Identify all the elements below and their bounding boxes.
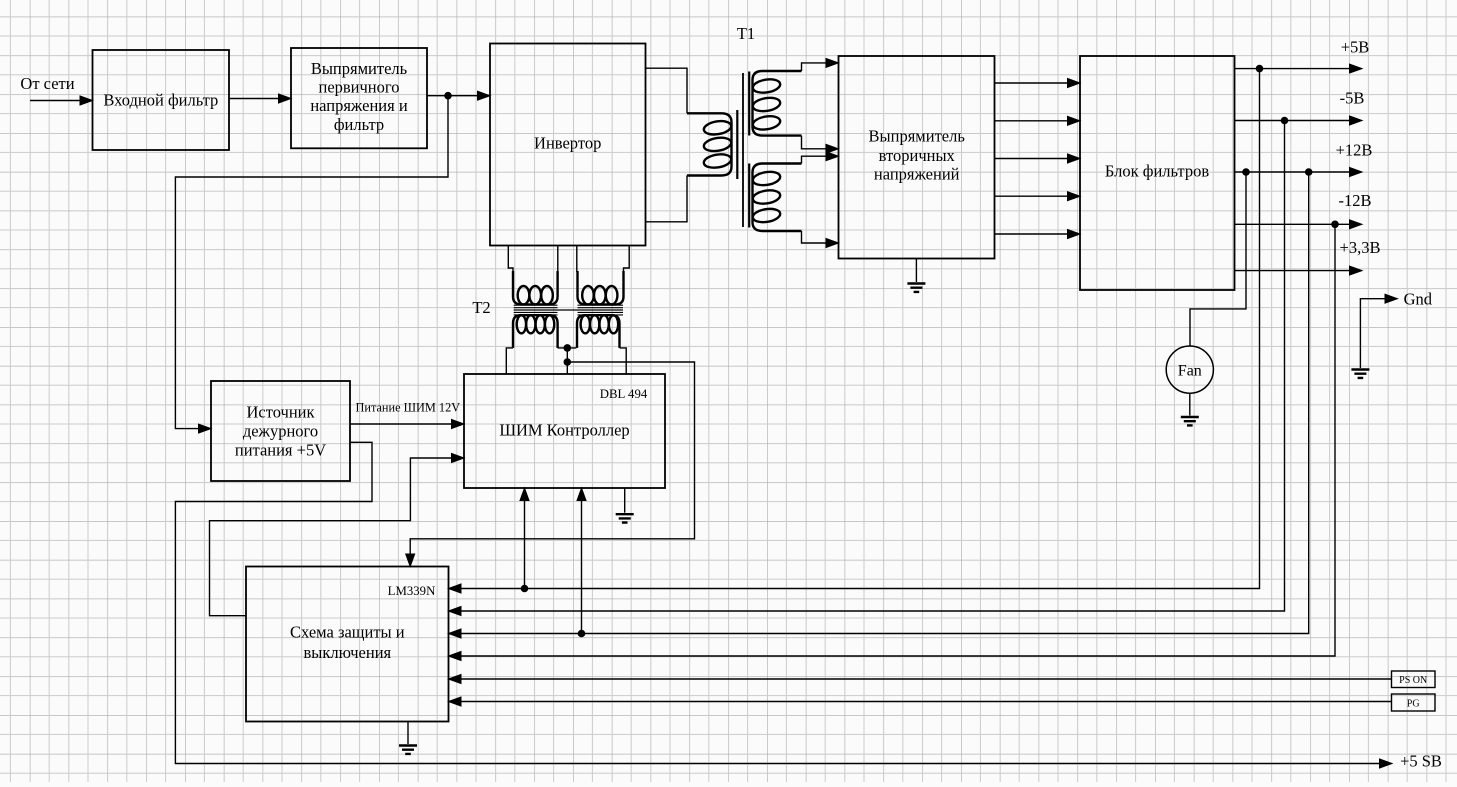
svg-text:PS ON: PS ON: [1399, 675, 1427, 686]
block "Схема защиты и выключения" LM339N: [246, 567, 449, 722]
svg-text:напряжения и: напряжения и: [310, 96, 407, 115]
svg-text:+5 SB: +5 SB: [1400, 751, 1442, 770]
svg-text:выключения: выключения: [303, 643, 391, 662]
svg-text:дежурного: дежурного: [243, 422, 318, 441]
svg-text:Gnd: Gnd: [1404, 290, 1433, 309]
svg-text:Инвертор: Инвертор: [534, 133, 601, 152]
wire +12В feedback to protection: [459, 172, 1309, 634]
wire protection line3 to PWM bottom 2: [581, 499, 583, 634]
svg-text:PG: PG: [1407, 699, 1420, 710]
svg-text:Схема защиты и: Схема защиты и: [290, 623, 405, 642]
wire protection line1 to PWM bottom 1: [524, 499, 526, 589]
svg-text:напряжений: напряжений: [874, 164, 960, 183]
wire inverter to T2-1 primary right: [557, 246, 559, 273]
wire T2 secondary inner junction: [558, 347, 577, 349]
output -12В: [1235, 191, 1372, 229]
ground under protection block: [407, 722, 409, 745]
svg-text:+12В: +12В: [1336, 141, 1373, 160]
wire standby to PWM controller: [350, 423, 453, 425]
transformer T1 secondary winding upper: [752, 71, 802, 136]
wire PS ON to protection: [459, 678, 1392, 680]
wire protection to PWM input 2: [210, 458, 454, 616]
wire +5В feedback to protection: [459, 69, 1260, 589]
ground under fan: [1189, 393, 1191, 415]
transformer T2-2 primary winding: [578, 271, 624, 304]
block "Выпрямитель первичного напряжения и фильтр": [291, 48, 427, 148]
transformer T1 primary winding: [687, 113, 732, 175]
wire inverter to T2-2 primary left: [576, 246, 578, 273]
svg-text:Выпрямитель: Выпрямитель: [311, 59, 408, 78]
transformer T2 shared core line: [514, 309, 623, 311]
svg-text:DBL 494: DBL 494: [600, 387, 648, 401]
output +5В: [1235, 37, 1370, 73]
ground under secondary rectifier: [915, 259, 917, 283]
wire junction to standby source: [175, 96, 448, 429]
output -5В: [1235, 88, 1365, 125]
transformer T2-1 primary winding: [513, 271, 558, 304]
output +12В: [1235, 141, 1373, 177]
output +3,3В: [1235, 238, 1381, 275]
block "Входной фильтр": [93, 50, 230, 150]
wire inverter to T1 primary top: [646, 68, 688, 113]
fan: [1166, 346, 1213, 393]
block "Выпрямитель вторичных напряжений": [839, 56, 995, 259]
svg-text:питания +5V: питания +5V: [235, 441, 326, 460]
wire rectifier to filter block 1: [995, 82, 1069, 84]
svg-text:Выпрямитель: Выпрямитель: [869, 127, 966, 146]
wire rectifier to filter block 2: [995, 120, 1069, 122]
svg-text:+3,3В: +3,3В: [1340, 238, 1381, 257]
wire rectifier to filter block 5: [995, 233, 1069, 235]
PS ON box: [1392, 671, 1436, 688]
svg-text:T1: T1: [737, 24, 755, 43]
wire PG to protection: [459, 701, 1392, 703]
svg-text:вторичных: вторичных: [879, 146, 956, 165]
wire T2-2 secondary outer to PWM: [620, 348, 627, 374]
wire T1 lower secondary bottom to secondary rectifier: [802, 231, 828, 243]
wire T2 center to PWM top: [566, 348, 568, 374]
svg-text:первичного: первичного: [318, 78, 399, 97]
svg-text:Блок фильтров: Блок фильтров: [1105, 161, 1209, 180]
transformer T2-1 core: [514, 305, 558, 315]
svg-text:-12В: -12В: [1339, 191, 1372, 210]
svg-text:+5В: +5В: [1341, 37, 1370, 56]
wire inverter to T2-1 primary left: [508, 246, 513, 273]
transformer T2-1 secondary winding: [513, 315, 558, 348]
wire primary rectifier to inverter: [427, 95, 479, 97]
wire T1 lower secondary top to secondary rectifier: [802, 156, 828, 163]
svg-text:Питание ШИМ 12V: Питание ШИМ 12V: [355, 401, 460, 415]
wire PWM loop to protection top: [410, 362, 694, 556]
block "Блок фильтров": [1080, 56, 1235, 290]
wire rectifier to filter block 3: [995, 158, 1069, 160]
PG box: [1392, 694, 1436, 711]
svg-text:LM339N: LM339N: [388, 584, 436, 598]
transformer T2-2 secondary winding: [577, 315, 620, 348]
wire inverter to T1 primary bottom: [646, 176, 688, 222]
node PWM feedback branch junction: [564, 358, 572, 366]
wire T1 upper secondary top to secondary rectifier: [802, 63, 828, 71]
svg-text:T2: T2: [472, 298, 490, 317]
wire input filter to primary rectifier: [229, 98, 280, 100]
svg-text:фильтр: фильтр: [334, 115, 384, 134]
svg-text:Источник: Источник: [246, 403, 315, 422]
wire rectifier to filter block 4: [995, 195, 1069, 197]
svg-text:Входной фильтр: Входной фильтр: [103, 91, 218, 110]
transformer T1 core: [737, 72, 749, 228]
ground symbol for Gnd net: [1351, 370, 1369, 378]
svg-text:-5В: -5В: [1340, 88, 1365, 107]
wire -5В feedback to protection: [459, 121, 1285, 612]
wire standby to +5 SB output: [175, 442, 1381, 763]
block "Инвертор": [490, 44, 646, 246]
node junction dot: [444, 92, 452, 100]
wire mains input: [30, 100, 82, 102]
block "Источник дежурного питания +5V": [211, 381, 350, 481]
svg-text:От сети: От сети: [20, 74, 74, 93]
wire -12В feedback to protection: [459, 224, 1335, 656]
svg-text:ШИМ Контроллер: ШИМ Контроллер: [499, 421, 629, 440]
transformer T2-2 core: [578, 305, 624, 315]
wire T2-1 secondary outer to PWM: [506, 348, 513, 374]
wire +12В to fan: [1190, 172, 1246, 346]
block "ШИМ Контроллер" DBL 494: [464, 374, 665, 488]
node T2 center junction: [564, 344, 572, 352]
wire inverter to T2-2 primary right: [624, 246, 630, 273]
Gnd output: [1360, 290, 1432, 368]
wire T1 upper secondary bottom to secondary rectifier: [802, 136, 828, 149]
transformer T1 secondary winding lower: [752, 164, 802, 232]
svg-text:Fan: Fan: [1178, 363, 1202, 380]
ground under PWM controller: [624, 488, 626, 513]
